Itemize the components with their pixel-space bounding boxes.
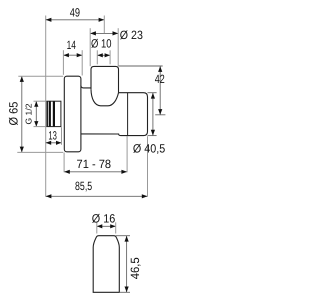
cap drawing: dimension Ø16: [92, 211, 116, 233]
svg-text:85,5: 85,5: [75, 179, 92, 193]
svg-text:Ø 40,5: Ø 40,5: [133, 142, 166, 156]
dimension 85,5: [46, 136, 148, 198]
svg-text:13: 13: [48, 129, 57, 143]
dimension 71 - 78: [64, 136, 127, 174]
svg-text:46,5: 46,5: [128, 257, 142, 279]
valve body block and outlet pipe: [81, 86, 148, 136]
svg-text:71 - 78: 71 - 78: [77, 157, 112, 171]
svg-text:G 1/2: G 1/2: [24, 103, 34, 124]
svg-text:Ø 65: Ø 65: [6, 101, 20, 125]
dimension 49: [46, 6, 105, 34]
dimension Ø23: [90, 28, 143, 66]
cap body: [93, 236, 119, 293]
dimension 42: [119, 66, 166, 115]
svg-text:42: 42: [155, 72, 165, 86]
svg-text:49: 49: [70, 6, 81, 20]
dimension Ø40,5: [133, 93, 166, 156]
sleeve separation line: [127, 93, 129, 136]
cap drawing: dimension 46,5: [116, 236, 142, 293]
dimension Ø65: [6, 76, 63, 152]
valve dome (Ø23 housing): [91, 66, 119, 105]
svg-text:Ø 16: Ø 16: [92, 211, 116, 225]
dimension G 1/2: [24, 101, 47, 126]
dimension 14: [63, 38, 82, 76]
svg-text:Ø 23: Ø 23: [120, 28, 143, 42]
escutcheon disc Ø65: [64, 76, 81, 152]
thread tail G1/2: [47, 101, 61, 126]
svg-text:Ø 10: Ø 10: [91, 36, 112, 50]
dimension Ø10: [91, 36, 112, 64]
wall extension line: [45, 16, 47, 197]
svg-text:14: 14: [67, 38, 77, 52]
dimension 13: [46, 127, 62, 145]
